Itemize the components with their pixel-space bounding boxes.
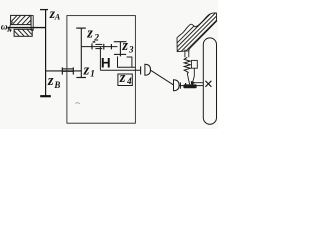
gear z2 tooth bar [76, 27, 86, 29]
planet pivot tick 2 [103, 44, 105, 50]
pivot cap mark [93, 41, 96, 42]
input line into gearbox (gear zB drive line) [46, 70, 82, 72]
coupling at gearbox wall [62, 67, 73, 74]
connecting link (diagonal) [151, 70, 174, 85]
svg-text:A: A [54, 12, 61, 22]
input rotation arrow [10, 22, 13, 30]
carrier H top arm [81, 46, 117, 48]
follower shaft to guide [179, 85, 203, 87]
planet pivot tick 3 [110, 44, 112, 49]
worm lower half (hatched section) [14, 29, 32, 37]
svg-text:H: H [101, 55, 111, 70]
worm shaft (input, horizontal) [8, 27, 46, 29]
left inner shaft (z1-z2 shaft) [80, 28, 82, 77]
planet pivot tick 1 [91, 43, 93, 49]
spring link to slider [187, 74, 194, 85]
output shaft bearing tick at wall [140, 66, 142, 74]
stray scan mark [75, 102, 80, 105]
gearbox housing (frame box) [67, 16, 135, 124]
bearing tick on follower shaft [179, 82, 181, 88]
damper box [191, 60, 197, 68]
svg-text:z: z [121, 38, 128, 54]
damper rod [193, 68, 195, 76]
spring (zigzag) [184, 57, 190, 74]
svg-text:4: 4 [126, 76, 132, 86]
gear z4 (block with label inside) [118, 74, 132, 86]
slider end ticks [185, 83, 187, 85]
planet sleeve lower bar [95, 48, 102, 50]
svg-text:z: z [83, 62, 90, 78]
gear z3 (I-bar on right inner shaft) [114, 42, 127, 57]
worm right end cap [31, 16, 33, 31]
planet bracket (open-top box under z3) [118, 56, 136, 67]
svg-text:1: 1 [90, 70, 95, 80]
svg-text:z: z [119, 70, 126, 86]
svg-text:z: z [47, 73, 54, 89]
contact point X mark [205, 81, 211, 87]
svg-text:z: z [86, 26, 93, 42]
vertical shaft A-B [45, 10, 47, 96]
friction cone 1 (driver) [145, 64, 151, 75]
carrier H vertical drop [99, 47, 101, 71]
planet sleeve upper bar [95, 43, 102, 45]
force arrow toward guide [196, 82, 204, 84]
gear zA tooth bar (top tick) [40, 9, 48, 11]
carrier H bottom arm / output shaft [100, 69, 140, 71]
svg-text:B: B [53, 80, 60, 90]
suspension legs from frame [184, 50, 186, 58]
worm upper half (hatched section) [11, 15, 31, 24]
svg-text:3: 3 [128, 45, 134, 55]
follower guide (stadium slot) [203, 38, 216, 124]
friction block (slider, dark) [183, 84, 196, 88]
friction cone 2 (driven) [174, 80, 180, 91]
gear z1 tooth bar [76, 77, 86, 79]
arrowhead [191, 81, 197, 84]
ground support (fixed bearing at shaft bottom) [40, 95, 51, 97]
